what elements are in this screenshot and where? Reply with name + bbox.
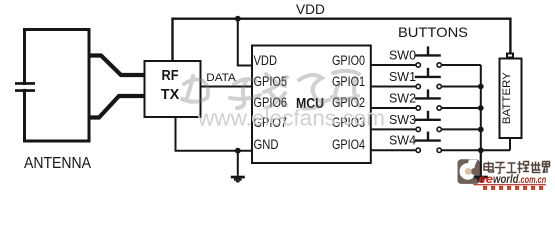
svg-text:BATTERY: BATTERY xyxy=(501,72,513,124)
svg-text:GND: GND xyxy=(254,137,279,152)
svg-text:VDD: VDD xyxy=(254,53,278,68)
svg-text:RF: RF xyxy=(162,67,179,84)
svg-text:ANTENNA: ANTENNA xyxy=(24,155,91,172)
svg-text:world: world xyxy=(493,172,519,186)
svg-text:TX: TX xyxy=(161,86,180,103)
svg-text:www.elecfans.com: www.elecfans.com xyxy=(197,106,385,131)
svg-text:GPIO0: GPIO0 xyxy=(332,53,365,68)
svg-text:SW2: SW2 xyxy=(389,92,416,106)
svg-text:SW0: SW0 xyxy=(389,49,416,63)
svg-text:GPIO4: GPIO4 xyxy=(332,137,365,152)
svg-text:DATA: DATA xyxy=(206,72,236,84)
svg-text:BUTTONS: BUTTONS xyxy=(398,25,468,40)
svg-text:SW3: SW3 xyxy=(389,113,416,127)
svg-text:SW4: SW4 xyxy=(389,134,416,148)
svg-text:VDD: VDD xyxy=(296,2,325,17)
svg-text:SW1: SW1 xyxy=(389,70,416,84)
svg-text:ee: ee xyxy=(479,172,494,186)
